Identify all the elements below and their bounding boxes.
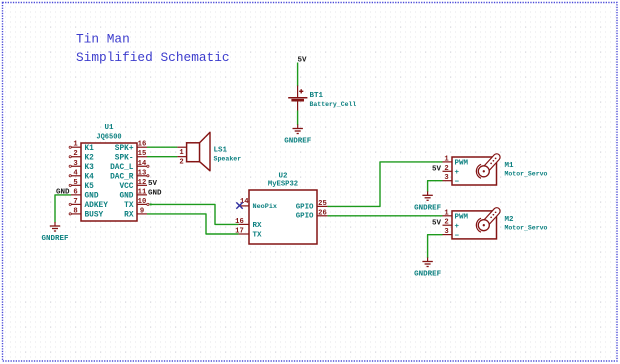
svg-text:M2: M2 [505, 216, 515, 224]
svg-text:9: 9 [140, 207, 144, 215]
svg-text:BUSY: BUSY [85, 212, 104, 220]
svg-text:12: 12 [138, 179, 147, 187]
svg-text:GND: GND [85, 192, 99, 200]
svg-text:5: 5 [73, 179, 77, 187]
svg-text:4: 4 [73, 169, 78, 177]
svg-text:1: 1 [73, 141, 78, 149]
svg-text:GND: GND [119, 192, 133, 200]
svg-text:LS1: LS1 [214, 147, 228, 155]
svg-text:TX: TX [253, 232, 263, 240]
svg-text:16: 16 [138, 141, 147, 149]
svg-text:ADKEY: ADKEY [85, 202, 109, 210]
svg-text:+: + [455, 223, 460, 231]
svg-text:+: + [455, 169, 460, 177]
svg-text:Motor_Servo: Motor_Servo [505, 225, 548, 232]
svg-text:PWM: PWM [455, 160, 469, 168]
svg-text:−: − [455, 232, 460, 240]
svg-text:GPIO: GPIO [296, 213, 314, 221]
svg-text:15: 15 [138, 150, 147, 158]
svg-text:NeoPix: NeoPix [253, 203, 277, 211]
svg-text:2: 2 [73, 150, 77, 158]
svg-text:K3: K3 [85, 164, 95, 172]
svg-text:VCC: VCC [119, 183, 133, 191]
svg-text:1: 1 [444, 155, 449, 163]
svg-text:3: 3 [73, 160, 77, 168]
svg-text:DAC_R: DAC_R [110, 173, 134, 181]
svg-text:GNDREF: GNDREF [41, 235, 69, 243]
svg-text:U1: U1 [104, 124, 114, 132]
svg-text:3: 3 [444, 174, 448, 182]
svg-text:JQ6500: JQ6500 [96, 134, 121, 142]
svg-text:1: 1 [179, 149, 184, 157]
svg-text:GND: GND [148, 190, 162, 198]
svg-text:GNDREF: GNDREF [414, 204, 442, 212]
svg-text:5V: 5V [148, 180, 158, 188]
svg-text:14: 14 [240, 198, 249, 206]
svg-text:14: 14 [138, 160, 147, 168]
svg-text:RX: RX [253, 222, 263, 230]
svg-text:13: 13 [138, 169, 147, 177]
svg-text:Battery_Cell: Battery_Cell [310, 101, 357, 108]
svg-text:M1: M1 [505, 162, 515, 170]
svg-text:7: 7 [73, 198, 77, 206]
svg-text:SPK-: SPK- [115, 154, 134, 162]
svg-text:2: 2 [179, 159, 183, 167]
svg-text:K2: K2 [85, 154, 95, 162]
svg-text:Tin Man: Tin Man [76, 32, 130, 47]
svg-text:−: − [455, 179, 460, 187]
svg-text:11: 11 [138, 188, 147, 196]
svg-text:GND: GND [56, 189, 70, 197]
svg-text:3: 3 [444, 228, 448, 236]
svg-text:BT1: BT1 [310, 92, 324, 100]
svg-text:10: 10 [138, 198, 147, 206]
svg-text:U2: U2 [278, 172, 288, 180]
svg-text:Simplified Schematic: Simplified Schematic [76, 50, 230, 65]
svg-text:2: 2 [444, 165, 448, 173]
svg-text:K5: K5 [85, 183, 95, 191]
svg-text:RX: RX [124, 212, 134, 220]
svg-text:DAC_L: DAC_L [110, 164, 134, 172]
svg-text:26: 26 [318, 209, 327, 217]
svg-text:K1: K1 [85, 145, 95, 153]
svg-text:TX: TX [124, 202, 134, 210]
svg-text:8: 8 [73, 207, 77, 215]
svg-text:GNDREF: GNDREF [414, 271, 442, 279]
svg-text:2: 2 [444, 219, 448, 227]
svg-text:17: 17 [235, 228, 244, 236]
svg-text:Motor_Servo: Motor_Servo [505, 171, 548, 178]
svg-text:5V: 5V [432, 220, 442, 228]
svg-text:5V: 5V [432, 166, 442, 174]
svg-text:5V: 5V [297, 56, 307, 64]
svg-text:6: 6 [73, 188, 77, 196]
svg-text:16: 16 [235, 218, 244, 226]
svg-text:GPIO: GPIO [296, 203, 314, 211]
svg-text:MyESP32: MyESP32 [268, 181, 298, 189]
svg-text:PWM: PWM [455, 214, 469, 222]
svg-text:K4: K4 [85, 173, 95, 181]
svg-text:Speaker: Speaker [214, 155, 242, 162]
svg-text:GNDREF: GNDREF [284, 138, 312, 146]
svg-text:1: 1 [444, 209, 449, 217]
svg-text:SPK+: SPK+ [115, 145, 134, 153]
svg-text:25: 25 [318, 200, 327, 208]
